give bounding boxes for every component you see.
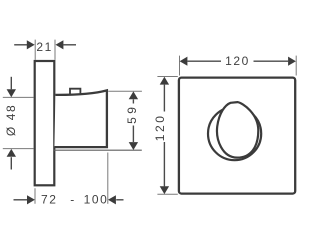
escutcheon plate (side): [35, 61, 55, 185]
dim 21: dimension line + arrows: [14, 40, 76, 49]
dim 120 left: dimension line + arrows: [160, 77, 169, 194]
svg-text:72: 72: [41, 192, 58, 206]
dim 21: extension lines: [34, 40, 36, 60]
svg-text:59: 59: [125, 104, 139, 124]
dim 72-100: dimension line + arrows: [14, 195, 124, 204]
handle base circle: [208, 107, 261, 160]
dim 72-100: left extension line: [34, 188, 36, 204]
svg-text:21: 21: [36, 40, 53, 54]
escutcheon plate (front, square 120x120): [179, 78, 295, 194]
dim 120 top: dimension line + arrows: [180, 57, 296, 66]
svg-text:100: 100: [84, 192, 109, 206]
drop-shaped handle: [217, 102, 258, 158]
safety button on handle top: [70, 89, 80, 95]
dim 120 top: extension lines: [179, 56, 181, 76]
dim 59: dimension line + arrows: [129, 91, 138, 150]
dim Ø48: bottom extension line: [3, 148, 34, 150]
svg-text:120: 120: [225, 54, 250, 68]
dim Ø48: dimension line + arrows: [7, 77, 16, 170]
dim 120 left: extension lines: [157, 76, 177, 78]
dim 59: top extension line: [108, 90, 142, 92]
dim 72-100: right extension line: [107, 153, 109, 204]
svg-text:120: 120: [153, 113, 167, 141]
handle (side view): [54, 90, 107, 147]
svg-text:Ø 48: Ø 48: [4, 104, 18, 136]
dim Ø48: top extension line: [3, 96, 34, 98]
handle skirt / bottom extension line for 59: [54, 149, 142, 151]
svg-text:-: -: [70, 192, 74, 206]
